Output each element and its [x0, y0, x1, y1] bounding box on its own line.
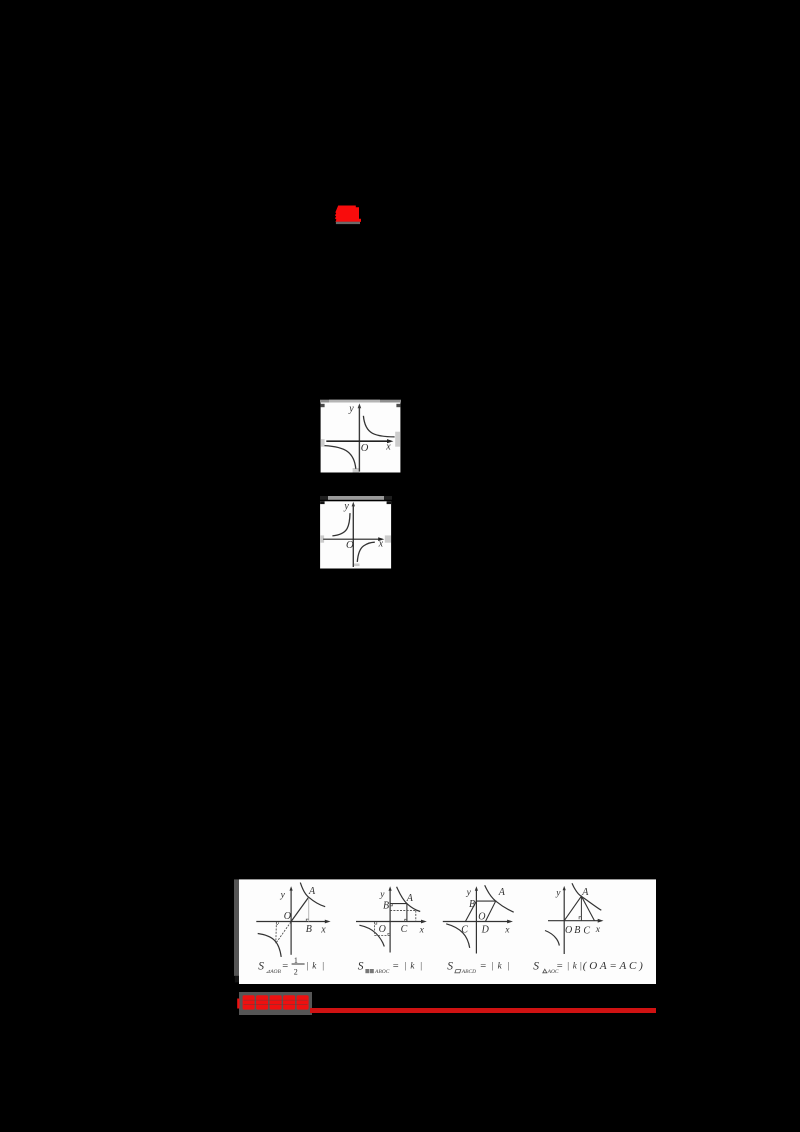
svg-text:2: 2: [294, 968, 298, 977]
svg-text:x: x: [419, 925, 425, 935]
corner marks: [321, 404, 325, 407]
svg-text:=: =: [282, 961, 288, 972]
svg-text:O: O: [379, 924, 386, 935]
svg-text:|: |: [567, 961, 569, 971]
graph box 1 : hyperbola k>0: [320, 399, 401, 473]
graph B rectangle ABOC sides: [390, 904, 407, 922]
graph B hyperbola QIII: [359, 925, 384, 946]
graph B right angle marks: [390, 904, 392, 906]
svg-text:D: D: [481, 925, 490, 936]
red title character 1: [237, 995, 308, 1009]
svg-text:|: |: [322, 961, 324, 971]
graph A hyperbola QI: [300, 883, 325, 907]
graph D triangle OAC: [564, 896, 594, 921]
top gray bar: [320, 400, 401, 403]
graph C y-axis: [475, 889, 477, 954]
svg-text:|: |: [420, 961, 422, 971]
x-axis: [326, 440, 390, 442]
hyperbola QIII branch: [325, 446, 356, 469]
svg-text:y: y: [379, 890, 385, 900]
svg-text:A: A: [406, 893, 414, 904]
svg-text:C: C: [583, 926, 590, 937]
svg-text:x: x: [378, 538, 384, 549]
graph A y-axis: [290, 889, 292, 955]
svg-text:y: y: [555, 888, 561, 898]
svg-text:A: A: [581, 887, 589, 898]
graph box 2 : hyperbola k<0: [320, 495, 392, 569]
svg-text:A: A: [498, 887, 506, 898]
svg-text:C: C: [401, 924, 408, 935]
svg-text:x: x: [385, 442, 391, 453]
svg-text:S: S: [447, 961, 453, 973]
svg-text:|: |: [307, 961, 309, 971]
svg-text:O: O: [284, 911, 291, 922]
graph A line OA: [291, 897, 309, 921]
graph B y-axis: [389, 889, 391, 953]
left tick: [237, 999, 239, 1009]
svg-text:|: |: [507, 961, 509, 971]
graph A dashed triangle: [275, 922, 278, 943]
graph D hyperbola QI: [572, 883, 601, 910]
graph B dashed lines QI: [390, 910, 416, 912]
svg-text:=: =: [480, 961, 486, 972]
graph C x-axis: [443, 921, 511, 923]
svg-text:y: y: [466, 888, 472, 898]
white box: [320, 501, 391, 568]
svg-text:=: =: [393, 961, 399, 972]
svg-text:x: x: [504, 925, 510, 935]
graph A segment AB (light): [308, 897, 310, 921]
svg-text:x: x: [320, 925, 326, 936]
notches top: [320, 501, 325, 504]
hyperbola QII branch: [332, 513, 350, 536]
red title character 2: [256, 995, 268, 1009]
svg-text:O: O: [478, 912, 485, 923]
white box: [321, 403, 401, 473]
svg-text:y: y: [343, 501, 349, 512]
svg-text:⊿AOB: ⊿AOB: [266, 969, 282, 975]
svg-text:O: O: [565, 925, 572, 936]
graph B dashed lines QIII: [374, 922, 376, 936]
svg-text:O: O: [361, 443, 369, 454]
svg-text:S: S: [533, 961, 539, 973]
svg-text:y: y: [348, 404, 354, 415]
graph C hyperbola QIII: [446, 924, 470, 948]
svg-text:A: A: [308, 886, 316, 897]
left gray border: [234, 879, 239, 976]
x-axis: [323, 538, 381, 540]
svg-text:S: S: [258, 961, 264, 973]
side gray marks: [321, 439, 325, 447]
top gray bar: [328, 496, 384, 500]
graph A x-axis: [256, 921, 328, 923]
svg-text:|: |: [492, 961, 494, 971]
svg-text:ABCD: ABCD: [461, 969, 476, 975]
graph D right angle at B: [579, 917, 581, 920]
y-axis: [352, 504, 354, 567]
graph A hyperbola QIII: [258, 934, 282, 957]
graph C hyperbola QI: [485, 885, 514, 912]
side gray marks: [320, 535, 324, 542]
graph D hyperbola QIII: [545, 931, 559, 946]
footer red title blobs: [236, 992, 316, 1016]
stroke gaps: [244, 1000, 308, 1004]
svg-text:B: B: [306, 924, 312, 935]
red title character 4: [283, 995, 295, 1009]
graph D altitude AB: [580, 896, 582, 921]
svg-text:ABOC: ABOC: [374, 969, 390, 975]
bottom white panel with four graphs: [234, 879, 656, 984]
svg-text:y: y: [280, 890, 286, 900]
svg-text:B: B: [383, 900, 389, 911]
panel background: [239, 879, 656, 984]
svg-text:S: S: [358, 961, 364, 973]
svg-text:|: |: [580, 961, 582, 971]
hyperbola QI branch: [363, 416, 394, 437]
graph B hyperbola QI: [397, 887, 421, 912]
red stamp icon: [334, 204, 364, 226]
red title character 3: [270, 995, 282, 1009]
footer red rule: [310, 1008, 656, 1013]
y-axis: [358, 406, 360, 472]
graph A right angle at B: [306, 919, 308, 921]
svg-text:(OA=AC): (OA=AC): [583, 960, 646, 972]
svg-text:|: |: [404, 961, 406, 971]
graph B x-axis: [356, 921, 424, 923]
svg-text:B: B: [574, 925, 580, 936]
graph C parallelogram ABCD: [465, 901, 495, 921]
svg-text:O: O: [346, 540, 354, 551]
graph D x-axis: [548, 920, 601, 922]
svg-text:C: C: [461, 925, 468, 936]
footer header gray block: [239, 992, 312, 1015]
svg-text:B: B: [469, 899, 475, 910]
red title character 5: [297, 995, 309, 1009]
svg-text:x: x: [595, 925, 601, 935]
graph D y-axis: [563, 888, 565, 954]
svg-text:=: =: [557, 961, 563, 972]
hyperbola QIV branch: [357, 542, 375, 562]
